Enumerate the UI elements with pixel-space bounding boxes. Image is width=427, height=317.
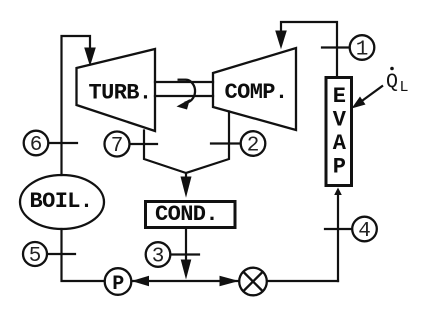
svg-text:BOIL.: BOIL. [29,189,92,214]
svg-text:6: 6 [30,134,43,157]
svg-text:5: 5 [29,245,42,268]
svg-text:1: 1 [356,38,369,61]
svg-text:E: E [333,84,346,109]
svg-text:COMP.: COMP. [224,80,287,105]
svg-text:A: A [333,131,347,156]
svg-text:L: L [399,79,408,96]
svg-text:Q: Q [386,71,398,94]
svg-text:TURB.: TURB. [88,81,151,106]
svg-text:7: 7 [111,135,124,158]
svg-text:3: 3 [152,245,165,268]
svg-text:V: V [333,108,347,133]
svg-text:COND.: COND. [155,202,218,227]
svg-text:P: P [333,155,346,180]
svg-text:P: P [112,273,124,296]
svg-text:2: 2 [247,134,260,157]
svg-text:4: 4 [358,220,371,243]
